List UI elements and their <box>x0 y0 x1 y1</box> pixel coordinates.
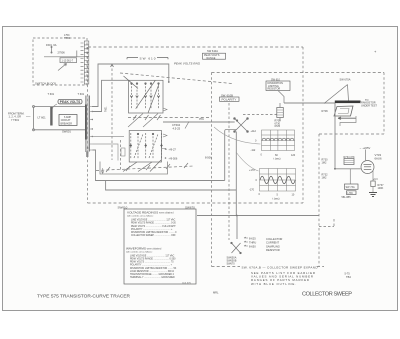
dashed notch near ground <box>319 219 334 227</box>
svg-text:SW 610A: SW 610A <box>207 49 218 53</box>
wiper slants wafer1 <box>124 76 159 113</box>
wire jog to y187 <box>106 181 237 191</box>
dashed shaft x120 <box>120 140 122 171</box>
svg-text:+170: +170 <box>249 169 255 172</box>
svg-text:SW 73A: SW 73A <box>346 186 356 189</box>
wiper slants between wafers <box>128 114 158 128</box>
svg-text:SW 610: SW 610 <box>140 56 156 60</box>
svg-text:SWITCH BLOCK: SWITCH BLOCK <box>35 81 56 85</box>
svg-text:RESISTOR: RESISTOR <box>268 88 281 91</box>
svg-text:L736: L736 <box>348 193 354 195</box>
resistor R709 <box>277 108 284 118</box>
switch X2 <box>231 242 242 254</box>
svg-text:4.5-25: 4.5-25 <box>173 126 181 130</box>
wire tube to R737 <box>372 170 374 181</box>
svg-text:SAMPLING: SAMPLING <box>266 244 280 248</box>
sampling contacts <box>244 237 248 246</box>
notes entries 2 <box>130 254 177 279</box>
variac bar LT601 <box>50 107 52 126</box>
wiper arrow SW601A <box>58 64 67 71</box>
wire wafer right drop <box>100 162 168 175</box>
wire tap mid1 <box>93 136 125 138</box>
arrow output <box>338 117 356 119</box>
svg-text:PEAK VOLTS: PEAK VOLTS <box>60 100 81 104</box>
svg-text:WITH BLUE OUTLINE.: WITH BLUE OUTLINE. <box>251 282 296 286</box>
svg-text:R736: R736 <box>322 109 329 113</box>
svg-text:-170: -170 <box>249 189 255 192</box>
gang slashes below wafer2 <box>123 160 161 172</box>
svg-text:8-506: 8-506 <box>205 156 212 160</box>
svg-text:COL 575: COL 575 <box>182 282 191 284</box>
tube V733 <box>361 161 374 174</box>
wire primary top <box>35 106 86 108</box>
dashed bottom edge y266 <box>212 266 325 268</box>
input rail <box>33 107 35 130</box>
dashed enclosure bottom-left edge <box>88 202 304 204</box>
svg-text:DISSIPATION LIMITING RESISTOR: DISSIPATION LIMITING RESISTOR ......... … <box>131 231 177 234</box>
wire stub vertical <box>76 51 78 57</box>
svg-text:COLLECTOR: COLLECTOR <box>266 237 282 241</box>
resistor R737 <box>371 181 375 187</box>
fuse F601 <box>51 47 53 54</box>
svg-text:BREAKER: BREAKER <box>61 122 73 125</box>
dashed inner box left x319 <box>318 134 320 267</box>
see parts list note <box>251 271 315 286</box>
svg-text:SW670: SW670 <box>227 262 236 265</box>
wire tap mid2 <box>93 144 119 161</box>
X1 outputs down <box>224 131 226 181</box>
leader from knob <box>53 104 58 109</box>
svg-text:POLARITY .....................: POLARITY ...............................… <box>130 264 173 267</box>
contacts wafer2 <box>131 133 162 159</box>
box L736 upper <box>345 184 359 189</box>
svg-text:T 601: T 601 <box>48 92 55 96</box>
contact diamonds wafer2 <box>130 144 163 147</box>
svg-text:8-650: 8-650 <box>249 245 256 249</box>
leader curve to graph1 <box>214 127 261 144</box>
dashed right edge x384 <box>383 73 385 135</box>
dashed switch shaft x112 <box>111 64 113 160</box>
primary winding upper <box>85 96 86 105</box>
dashed gang line y72 <box>212 72 385 74</box>
svg-text:PEAK VOLTS RANGE .............: PEAK VOLTS RANGE .......................… <box>131 222 176 225</box>
svg-text:+112: +112 <box>251 130 257 133</box>
svg-text:TB4: TB4 <box>346 275 351 279</box>
svg-text:1-15 561-7: 1-15 561-7 <box>62 60 74 63</box>
svg-text:THRU: THRU <box>249 241 256 245</box>
svg-text:PEAK VOLTS ...................: PEAK VOLTS .............................… <box>130 261 174 264</box>
dashed divider vertical x211 <box>211 73 213 267</box>
svg-text:TRANSISTOR BASE ......... GROU: TRANSISTOR BASE ......... GROUNDED 2 <box>130 273 175 276</box>
svg-text:SW 670A: SW 670A <box>340 78 351 82</box>
wire tap bottom to y179 <box>93 150 225 181</box>
wire arrow stub <box>101 168 103 174</box>
parallelogram wafer <box>334 106 353 116</box>
svg-text:8-625: 8-625 <box>249 237 256 241</box>
svg-text:T 601: T 601 <box>78 92 85 96</box>
secondary winding bar <box>89 96 90 152</box>
primary winding core dark <box>85 105 87 140</box>
svg-text:6AU6: 6AU6 <box>375 156 382 160</box>
grid wire <box>334 168 361 170</box>
dashed link polarity to resistor <box>243 114 277 116</box>
svg-text:DISSIPATION LIMITING RESISTOR: DISSIPATION LIMITING RESISTOR ........ 5… <box>130 267 177 270</box>
triangle <box>324 85 349 104</box>
wire secondary tap1 to wafer top <box>92 64 169 107</box>
dashed shaft x229 <box>228 103 230 240</box>
svg-text:+6.3: +6.3 <box>373 179 378 181</box>
ground <box>369 193 377 197</box>
dashed inner box top y134 <box>319 133 384 135</box>
svg-text:with controls set as follows:: with controls set as follows: <box>126 251 153 254</box>
box L736 lower <box>347 191 357 195</box>
contact dots wafer1 <box>131 83 133 85</box>
dashed gang slant y169 <box>96 166 194 171</box>
svg-text:RANGE: RANGE <box>207 57 216 60</box>
svg-text:COLLECTOR SWEEP ..............: COLLECTOR SWEEP ........................… <box>131 235 176 237</box>
resistor R601 on shaft <box>121 148 125 156</box>
gang slash ticks y117 <box>133 115 161 120</box>
notes entries 1 <box>131 219 177 238</box>
waveform 1 trace <box>262 138 294 141</box>
svg-text:SW601: SW601 <box>62 129 71 133</box>
box calibration limiting resistor <box>266 81 290 91</box>
cathode drop wire <box>349 169 351 184</box>
gang slash ticks y169 <box>106 163 188 172</box>
svg-text:120: 120 <box>291 154 296 157</box>
svg-text:t (sec): t (sec) <box>273 198 280 201</box>
svg-text:1M2: 1M2 <box>322 161 327 164</box>
svg-text:6725: 6725 <box>275 125 281 128</box>
svg-text:PEAK VOLTS ...................: PEAK VOLTS ......................... FUL… <box>131 225 176 228</box>
svg-text:⏎8-27: ⏎8-27 <box>169 147 177 151</box>
svg-text:POLARITY .....................: POLARITY ...............................… <box>131 228 173 231</box>
svg-text:LT 601: LT 601 <box>38 115 47 119</box>
primary winding lower <box>85 140 86 153</box>
svg-text:LOAD RESISTOR ................: LOAD RESISTOR ..........................… <box>130 270 174 273</box>
wire sampling bus y215 <box>197 215 319 217</box>
arrow on shaft x112 <box>111 64 114 67</box>
wire CT604 output <box>163 121 235 123</box>
dashed enclosure SW610 top edge <box>88 46 303 48</box>
svg-text:UNDER TEST: UNDER TEST <box>361 104 377 107</box>
wire secondary tap2 <box>92 80 129 111</box>
leader curve to graph2 <box>236 152 259 171</box>
svg-text:⏎8-506: ⏎8-506 <box>169 156 178 160</box>
core lines <box>87 96 90 154</box>
svg-text:t (sec): t (sec) <box>274 158 281 161</box>
dashed box line-selector top-left <box>33 38 87 85</box>
svg-text:TERMINAL 7 ...................: TERMINAL 7 .......................... GR… <box>130 276 175 279</box>
wire to triangle <box>284 102 335 104</box>
main vertical to grid wire <box>334 103 336 169</box>
svg-text:PEAK VOLTS RNG: PEAK VOLTS RNG <box>174 61 201 65</box>
wire line-selector horizontal <box>44 56 84 58</box>
svg-text:LINE VOLTAGE .................: LINE VOLTAGE ...........................… <box>131 219 176 222</box>
wire from box to node <box>278 91 284 104</box>
wire primary bottom <box>35 129 86 131</box>
svg-text:CURRENT: CURRENT <box>266 241 279 245</box>
secondary taps <box>90 107 93 151</box>
svg-text:→ +225V: → +225V <box>359 146 370 150</box>
dashed enclosure left edge <box>87 47 89 203</box>
thick bus bar <box>335 101 361 104</box>
svg-text:1M2: 1M2 <box>322 176 327 179</box>
svg-text:-112: -112 <box>251 149 256 152</box>
leader to dest labels <box>162 148 168 149</box>
svg-text:POLARITY: POLARITY <box>222 97 237 101</box>
wafer right arrows <box>163 108 167 137</box>
svg-text:100K: 100K <box>378 187 384 190</box>
waveform 2 trace <box>260 176 295 184</box>
svg-text:SW. 670A,B — COLLECTOR SWEEP E: SW. 670A,B — COLLECTOR SWEEP EXPAND <box>242 265 319 269</box>
trimmer arrow CT604 <box>185 122 189 129</box>
leader from-term <box>26 116 31 118</box>
junction dot on dashed edge <box>87 147 89 149</box>
peak volts knob label <box>58 99 82 104</box>
dashed gang line y117 <box>128 117 211 119</box>
svg-text:7 T601: 7 T601 <box>11 118 20 122</box>
svg-text:TYPE 575 TRANSISTOR-CURVE TRAC: TYPE 575 TRANSISTOR-CURVE TRACER <box>37 293 131 299</box>
wire plate supply <box>365 150 367 161</box>
svg-text:PEAK VOLTS RANGE .............: PEAK VOLTS RANGE .......................… <box>130 258 176 261</box>
terminal strip <box>81 41 89 84</box>
svg-text:F601 .6A: F601 .6A <box>46 43 57 47</box>
circuit breaker box <box>59 115 77 126</box>
contacts wafer1 <box>132 83 159 109</box>
wiper slants wafer2 <box>134 134 158 158</box>
svg-text:with controls set as follows:: with controls set as follows: <box>127 215 154 218</box>
z wire below <box>340 116 356 126</box>
svg-text:MRL: MRL <box>213 290 219 294</box>
svg-text:COLLECTOR SWEEP: COLLECTOR SWEEP <box>302 292 352 298</box>
bracket SW610 <box>127 58 168 60</box>
svg-text:581-0B5: 581-0B5 <box>342 196 352 199</box>
selector contact box <box>60 58 77 63</box>
wire to ground <box>372 187 374 193</box>
svg-text:T601: T601 <box>105 106 108 112</box>
svg-text:T75D: T75D <box>64 37 70 40</box>
dashed divider vertical x303 <box>302 47 304 203</box>
box POLARITY <box>220 97 240 101</box>
contact marks wafer1 <box>130 95 159 97</box>
svg-text:27906: 27906 <box>58 51 66 55</box>
svg-text:LINE VOLTAGE .................: LINE VOLTAGE ...........................… <box>130 254 175 257</box>
svg-text:RESISTOR: RESISTOR <box>266 248 280 252</box>
reversing switch X1 <box>234 118 249 133</box>
wire sampling drop <box>236 216 238 240</box>
